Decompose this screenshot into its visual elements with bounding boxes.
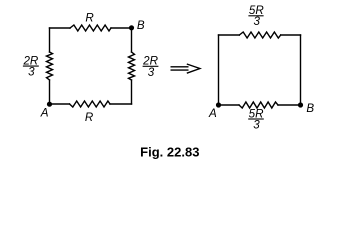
- wire right side lower: [131, 80, 133, 104]
- resistor R bottom (left circuit): [70, 101, 111, 107]
- svg-text:A: A: [208, 107, 217, 120]
- node A (right circuit): [216, 102, 221, 107]
- resistor R top (left circuit): [70, 25, 111, 31]
- wire bottom-left to node A (right circuit): [219, 104, 240, 106]
- svg-text:3: 3: [148, 66, 155, 79]
- wire left side lower: [49, 80, 51, 104]
- svg-text:B: B: [137, 19, 145, 32]
- resistor 5R/3 bottom (right circuit): [239, 102, 278, 108]
- value label 2R/3 right fraction: [142, 55, 158, 79]
- svg-text:3: 3: [253, 118, 260, 131]
- svg-text:3: 3: [28, 66, 35, 79]
- wire top-right to node B: [111, 27, 132, 29]
- wire top-left (left circuit): [50, 27, 71, 29]
- wire bottom-right to node B (right circuit): [278, 104, 301, 106]
- value label 2R/3 left fraction: [22, 54, 38, 78]
- svg-text:3: 3: [253, 15, 260, 28]
- wire right side (right circuit): [300, 35, 302, 105]
- svg-text:Fig. 22.83: Fig. 22.83: [140, 144, 199, 159]
- svg-text:B: B: [306, 102, 314, 115]
- wire top-left (right circuit): [219, 34, 240, 36]
- svg-text:R: R: [85, 12, 94, 25]
- resistor 2R/3 left (left circuit): [47, 52, 53, 80]
- resistor 5R/3 top (right circuit): [239, 32, 280, 38]
- arrow (equivalence): [171, 64, 200, 73]
- node B (right circuit): [298, 102, 303, 107]
- value label 5R/3 top fraction: [248, 4, 264, 28]
- wire top-right (right circuit): [281, 34, 301, 36]
- value label 5R/3 bottom fraction: [248, 107, 264, 131]
- wire left side upper: [49, 28, 51, 52]
- svg-text:R: R: [85, 111, 94, 124]
- node B (left circuit): [129, 25, 134, 30]
- wire left side (right circuit): [218, 35, 220, 105]
- node A (left circuit): [47, 102, 52, 107]
- svg-text:A: A: [40, 106, 49, 119]
- wire right side upper: [131, 28, 133, 52]
- wire bottom-left to node A: [50, 103, 70, 105]
- wire bottom-right (left circuit): [110, 103, 132, 105]
- resistor 2R/3 right (left circuit): [129, 52, 135, 80]
